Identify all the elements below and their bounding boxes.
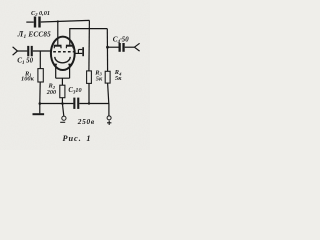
svg-text:5к: 5к	[96, 76, 103, 83]
svg-text:C2 0,01: C2 0,01	[31, 10, 50, 17]
svg-text:250в: 250в	[77, 117, 95, 126]
svg-text:Л1 ECC85: Л1 ECC85	[17, 30, 51, 41]
svg-text:Рис. 1: Рис. 1	[63, 134, 92, 143]
svg-text:100к: 100к	[21, 76, 35, 83]
svg-text:5к: 5к	[115, 75, 122, 82]
svg-text:200: 200	[46, 89, 56, 96]
